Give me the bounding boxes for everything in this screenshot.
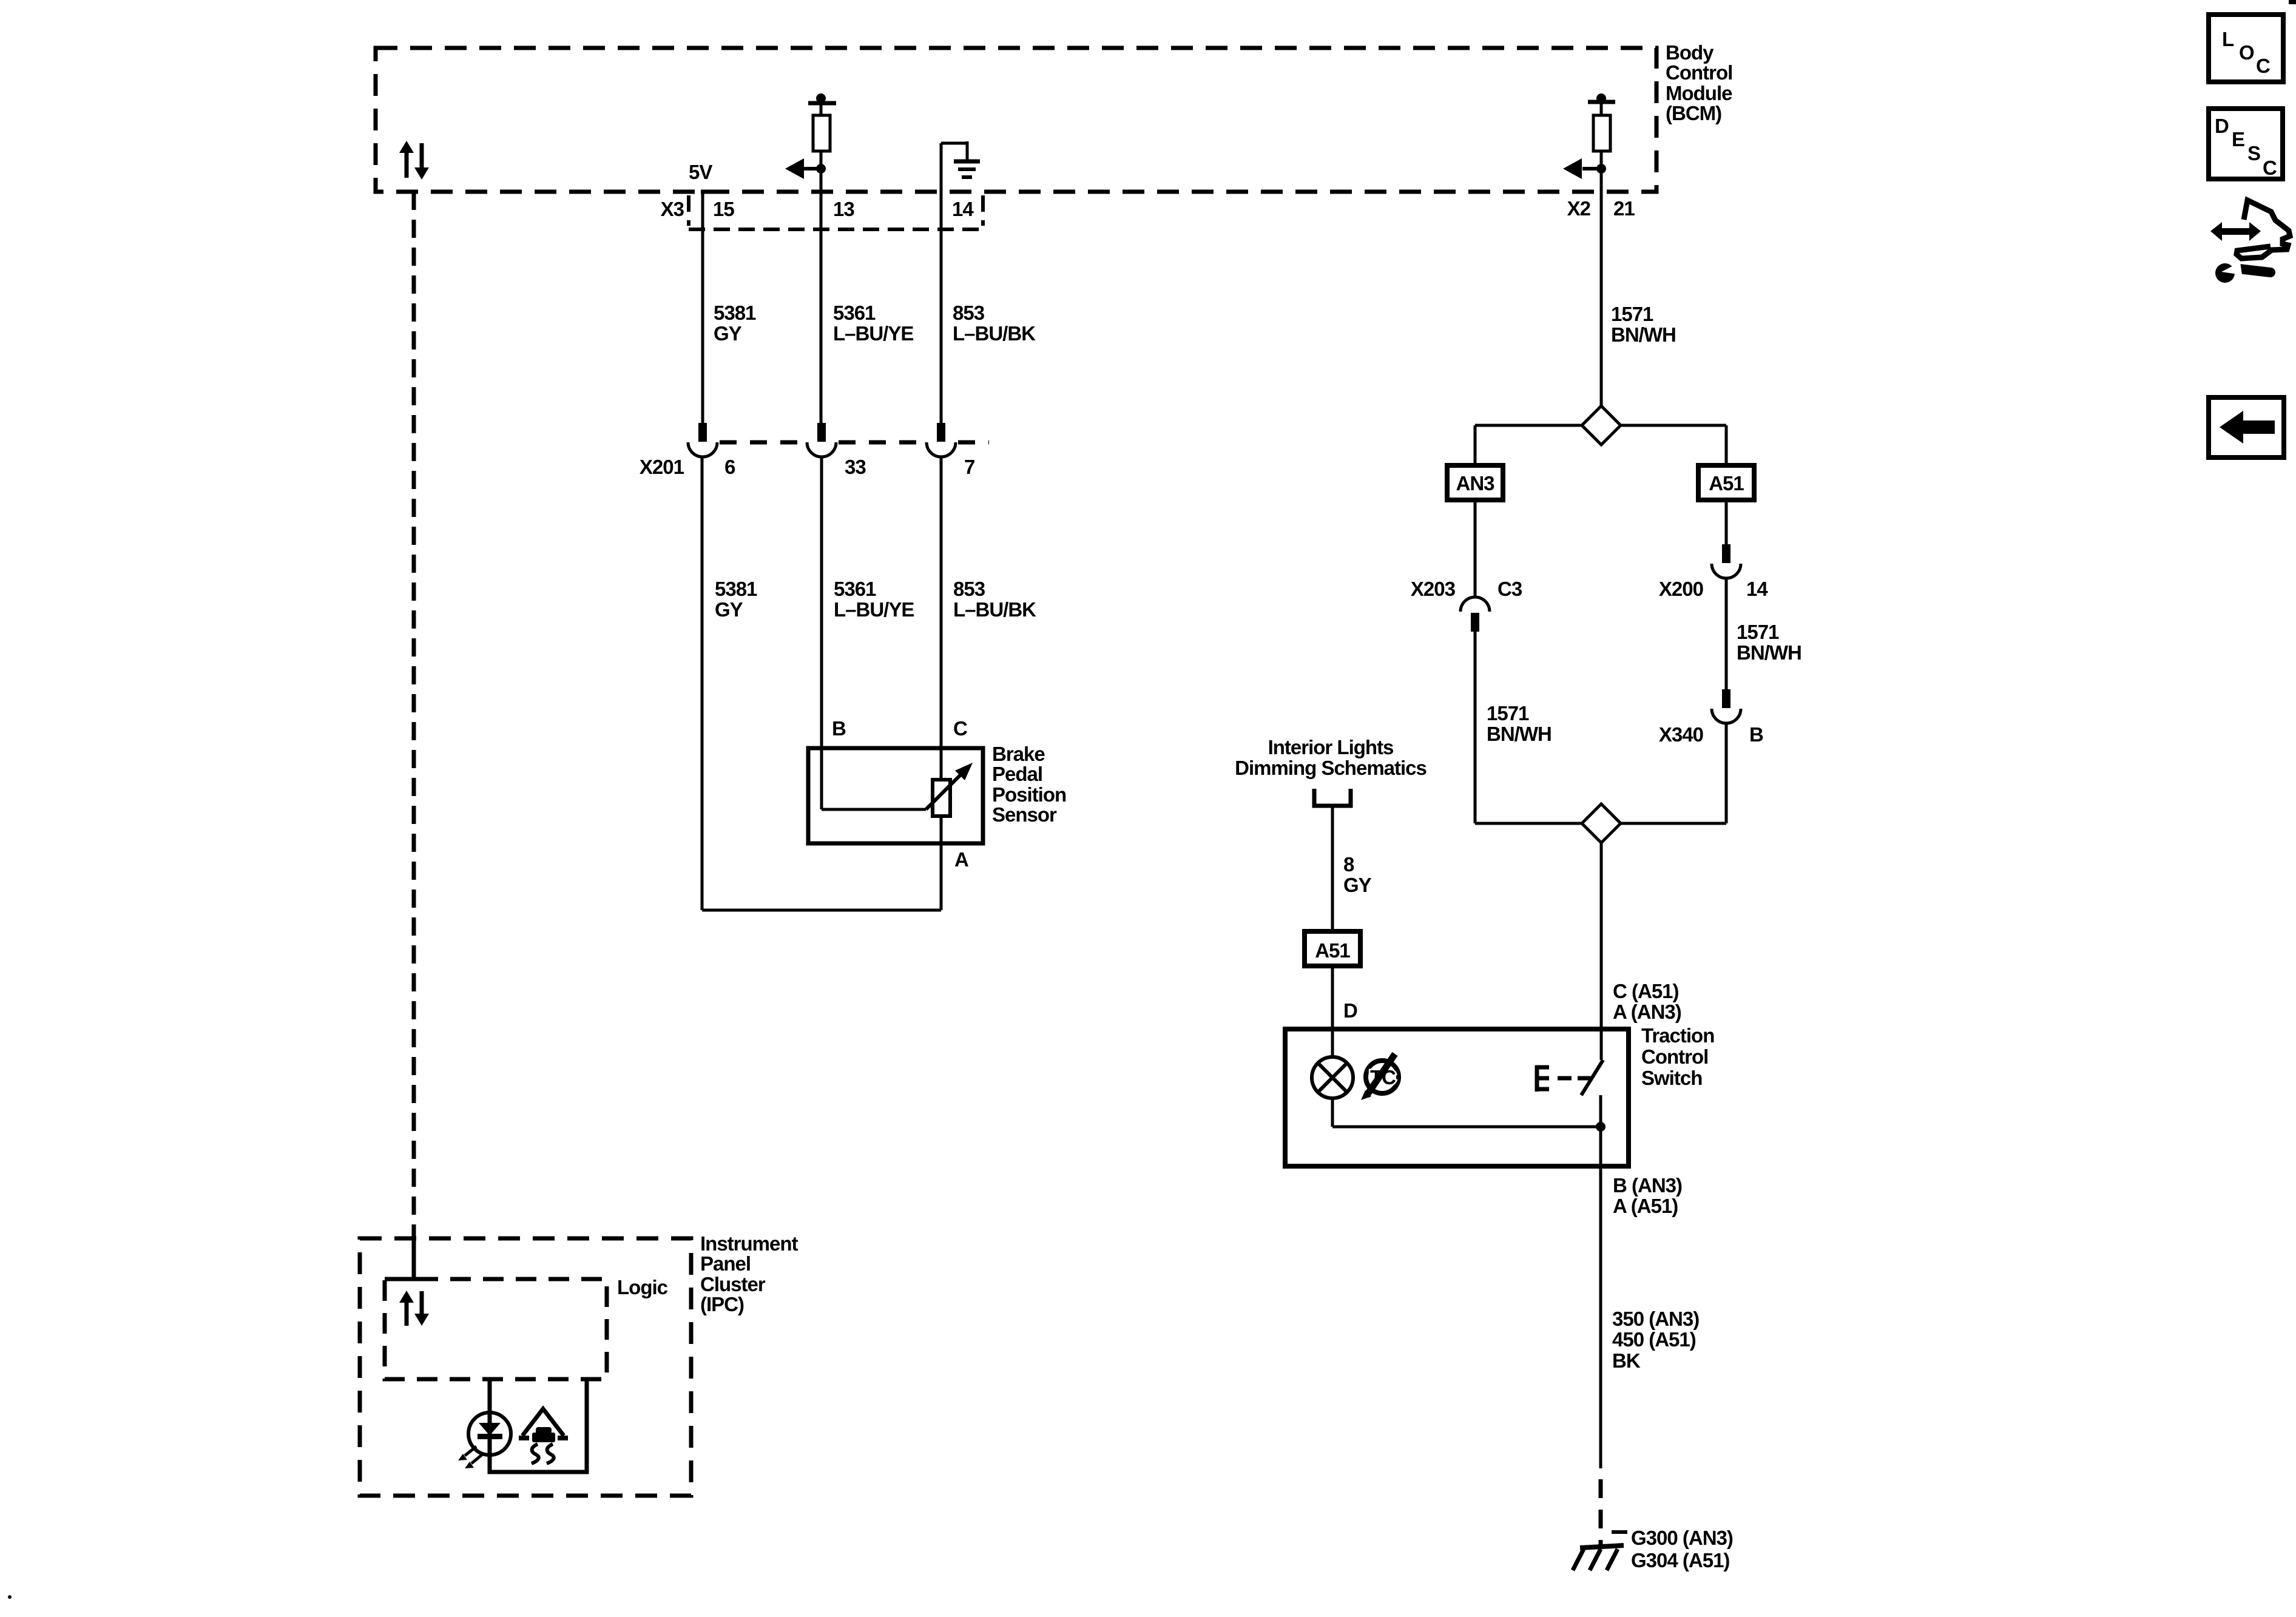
pin 33 [845, 456, 866, 478]
svg-text:D: D [1343, 999, 1357, 1022]
svg-text:BN/WH: BN/WH [1487, 723, 1551, 745]
resistor pull-up in BCM on circuit 5361 [808, 93, 836, 169]
svg-text:1571: 1571 [1611, 303, 1653, 325]
nav icon back arrow [2209, 397, 2284, 457]
svg-text:B: B [832, 717, 846, 740]
svg-text:L–BU/BK: L–BU/BK [953, 598, 1036, 621]
svg-text:BN/WH: BN/WH [1611, 323, 1676, 346]
switch actuator E [1535, 1065, 1591, 1092]
pin D label [1343, 999, 1357, 1022]
wire 5361 to sensor wiper [820, 457, 823, 809]
serial data dashed wire BCM to IPC [405, 192, 426, 1279]
signal direction arrow (right) [1563, 158, 1606, 179]
signal direction arrow (left) [785, 158, 826, 179]
node 5V reference [689, 161, 722, 192]
label Interior Lights Dimming Schematics [1235, 736, 1427, 779]
svg-text:14: 14 [1746, 578, 1768, 600]
page mark bottom left [8, 1595, 12, 1599]
svg-text:8: 8 [1343, 853, 1354, 876]
wire label 1571 BN/WH (top) [1611, 303, 1676, 346]
svg-text:A51: A51 [1709, 472, 1744, 495]
module box BCM (Body Control Module) [376, 48, 1656, 192]
wire circuits 350/450 [1599, 1166, 1602, 1468]
svg-text:Position: Position [992, 783, 1066, 806]
wire X200 to X340 [1725, 578, 1728, 691]
serial data arrows (IPC) [399, 1291, 429, 1326]
svg-text:B (AN3): B (AN3) [1613, 1174, 1682, 1197]
sensor return wire (bottom U) [702, 909, 941, 912]
traction control telltale icon [519, 1409, 568, 1463]
svg-text:L–BU/YE: L–BU/YE [833, 322, 913, 345]
svg-text:X340: X340 [1659, 723, 1703, 746]
svg-text:Brake: Brake [992, 743, 1045, 765]
wire circuit 8 [1331, 806, 1334, 931]
wire label 853 L-BU/BK (upper) [953, 302, 1036, 345]
label Brake Pedal Position Sensor [992, 743, 1066, 826]
wire 5381 to sensor return [701, 457, 704, 910]
component box Traction Control Switch [1285, 1029, 1629, 1166]
svg-text:5381: 5381 [714, 302, 756, 324]
terminal box A51 [1698, 465, 1754, 500]
svg-text:Body: Body [1666, 41, 1714, 64]
connector X340 (B) [1659, 689, 1763, 746]
svg-text:C: C [953, 717, 967, 740]
svg-text:G300 (AN3): G300 (AN3) [1631, 1527, 1733, 1549]
svg-text:A51: A51 [1315, 939, 1350, 962]
pin 13 [833, 198, 854, 220]
wire label 5361 L-BU/YE (lower) [834, 578, 914, 621]
LED indicator [468, 1413, 511, 1455]
svg-text:Sensor: Sensor [992, 803, 1057, 826]
svg-text:GY: GY [1343, 874, 1372, 896]
svg-text:Traction: Traction [1641, 1024, 1714, 1047]
svg-text:Pedal: Pedal [992, 763, 1042, 785]
indicator lamp [1312, 1029, 1353, 1127]
lamp to switch wire [1332, 1122, 1606, 1132]
label Traction Control Switch [1641, 1024, 1714, 1089]
svg-text:BK: BK [1612, 1349, 1641, 1372]
terminal box AN3 [1447, 465, 1503, 500]
svg-text:C (A51): C (A51) [1613, 980, 1679, 1002]
svg-text:450 (A51): 450 (A51) [1612, 1328, 1696, 1351]
wire label 1571 BN/WH (right mid) [1737, 621, 1801, 664]
svg-text:X201: X201 [640, 456, 684, 478]
module box IPC (Instrument Panel Cluster) [360, 1238, 691, 1496]
ground G300/G304 (chassis) [1573, 1532, 1627, 1570]
switch contacts and blade [1581, 1029, 1603, 1166]
wire label 1571 BN/WH (left mid) [1487, 702, 1551, 745]
TC off icon [1361, 1054, 1399, 1100]
page mark top right [2289, 0, 2296, 4]
svg-text:5361: 5361 [834, 578, 876, 600]
svg-text:Control: Control [1641, 1045, 1708, 1068]
ground symbol inside BCM [941, 141, 980, 177]
wire label 8 GY [1343, 853, 1372, 896]
svg-text:X203: X203 [1411, 578, 1456, 600]
splice S1 [1475, 406, 1726, 445]
pin labels C (A51) / A (AN3) [1613, 980, 1681, 1023]
wire circuit 1571 (pin 21) [1600, 169, 1603, 408]
wire circuit 5381 (pin 15) [701, 190, 704, 425]
svg-text:L–BU/BK: L–BU/BK [953, 322, 1036, 345]
svg-text:E: E [2232, 128, 2244, 150]
pin 15 [713, 198, 734, 220]
pin 21 [1613, 197, 1635, 220]
pin 6 [724, 456, 735, 478]
svg-text:15: 15 [713, 198, 734, 220]
svg-text:B: B [1749, 723, 1763, 746]
wire 853 to sensor supply [940, 457, 943, 910]
wire label 350 (AN3) 450 (A51) BK [1612, 1308, 1699, 1372]
svg-text:Dimming Schematics: Dimming Schematics [1235, 757, 1427, 779]
nav icon DESC [2209, 109, 2283, 179]
svg-text:BN/WH: BN/WH [1737, 641, 1801, 664]
connector X2 label [1567, 197, 1591, 220]
svg-text:A (AN3): A (AN3) [1613, 1001, 1681, 1023]
wire label 5381 GY (upper) [714, 302, 756, 345]
nav icon LOC [2209, 15, 2283, 82]
wire circuit 853 (pin 14) [940, 143, 943, 425]
svg-text:C: C [2256, 55, 2270, 77]
wire A51 to X200 [1725, 500, 1728, 546]
svg-text:C3: C3 [1497, 578, 1522, 600]
label X201 [640, 456, 684, 478]
wire AN3 to X203 [1474, 500, 1477, 597]
svg-text:5361: 5361 [833, 302, 876, 324]
svg-text:1571: 1571 [1737, 621, 1779, 643]
svg-text:Switch: Switch [1641, 1067, 1702, 1089]
potentiometer body [933, 780, 950, 816]
svg-text:6: 6 [724, 456, 735, 478]
svg-text:Cluster: Cluster [700, 1273, 766, 1295]
pin 14 [952, 198, 974, 220]
serial data arrows (BCM) [399, 141, 429, 180]
terminal box A51 (illumination) [1305, 931, 1360, 966]
svg-text:14: 14 [952, 198, 974, 220]
svg-text:1571: 1571 [1487, 702, 1529, 724]
svg-text:G304 (A51): G304 (A51) [1631, 1549, 1729, 1571]
pin labels B (AN3) / A (A51) [1613, 1174, 1682, 1217]
label Instrument Panel Cluster (IPC) [700, 1232, 799, 1315]
svg-text:GY: GY [714, 322, 742, 345]
wire to pin D [1331, 966, 1334, 1029]
pin 7 [964, 456, 974, 478]
svg-text:Module: Module [1666, 82, 1732, 104]
connector X201 pin 33 [807, 423, 836, 457]
indicator driver loop [490, 1379, 587, 1472]
svg-text:Logic: Logic [617, 1276, 668, 1298]
svg-text:13: 13 [833, 198, 854, 220]
connector X201 pin 7 [927, 423, 956, 457]
connector X201 pin 6 [688, 423, 717, 457]
wire X340 to S2 [1725, 723, 1728, 823]
wire branch to AN3 [1474, 425, 1477, 465]
connector X201 dashed line [720, 441, 989, 445]
svg-text:S: S [2247, 142, 2260, 164]
svg-text:(IPC): (IPC) [700, 1293, 744, 1315]
LED emission arrows [458, 1447, 482, 1468]
wire X203 to S2 [1474, 632, 1477, 823]
dashed wire to ground [1599, 1479, 1603, 1548]
svg-text:C: C [2263, 157, 2277, 179]
svg-text:L: L [2222, 28, 2234, 50]
svg-text:A (A51): A (A51) [1613, 1195, 1678, 1217]
svg-text:D: D [2215, 115, 2229, 137]
svg-text:21: 21 [1613, 197, 1635, 220]
svg-text:5V: 5V [689, 161, 712, 183]
component box Brake Pedal Position Sensor [808, 748, 983, 843]
svg-text:Control: Control [1666, 61, 1732, 84]
wire branch to A51 [1725, 425, 1728, 465]
svg-text:853: 853 [953, 302, 985, 324]
svg-text:A: A [954, 848, 968, 871]
wire circuit 5361 (pin 13) [820, 169, 823, 425]
wire label 853 L-BU/BK (lower) [953, 578, 1036, 621]
label G300 (AN3) / G304 (A51) [1631, 1527, 1733, 1571]
svg-text:5381: 5381 [715, 578, 757, 600]
svg-text:X3: X3 [661, 198, 684, 220]
svg-text:350 (AN3): 350 (AN3) [1612, 1308, 1699, 1330]
svg-text:L–BU/YE: L–BU/YE [834, 598, 914, 621]
svg-text:GY: GY [715, 598, 743, 621]
svg-text:O: O [2239, 41, 2254, 64]
wire label 5361 L-BU/YE (upper) [833, 302, 913, 345]
label Body Control Module (BCM) [1666, 41, 1732, 124]
svg-text:33: 33 [845, 456, 866, 478]
wire S2 to switch [1600, 843, 1603, 1029]
svg-text:Instrument: Instrument [700, 1232, 799, 1255]
potentiometer wiper wire [822, 763, 973, 809]
svg-text:7: 7 [964, 456, 974, 478]
svg-text:(BCM): (BCM) [1666, 102, 1721, 124]
wire label 5381 GY (lower) [715, 578, 757, 621]
connector X203 (C3) [1411, 578, 1522, 632]
connector repair icon [2210, 200, 2290, 283]
off-page reference bracket [1314, 789, 1351, 806]
svg-text:Panel: Panel [700, 1252, 751, 1275]
svg-text:X200: X200 [1659, 578, 1703, 600]
svg-text:Interior Lights: Interior Lights [1268, 736, 1394, 758]
svg-text:X2: X2 [1567, 197, 1591, 220]
logic box [385, 1279, 607, 1379]
connector X3 of BCM [661, 195, 983, 229]
svg-text:853: 853 [953, 578, 985, 600]
connector X200 (14) [1659, 544, 1768, 600]
label Logic [617, 1276, 668, 1298]
resistor pull-up in BCM on circuit 1571 [1588, 93, 1615, 169]
pin A label [954, 848, 968, 871]
splice S2 [1475, 804, 1726, 843]
pin B label [832, 717, 846, 740]
pin C label [953, 717, 967, 740]
svg-text:AN3: AN3 [1456, 472, 1494, 495]
